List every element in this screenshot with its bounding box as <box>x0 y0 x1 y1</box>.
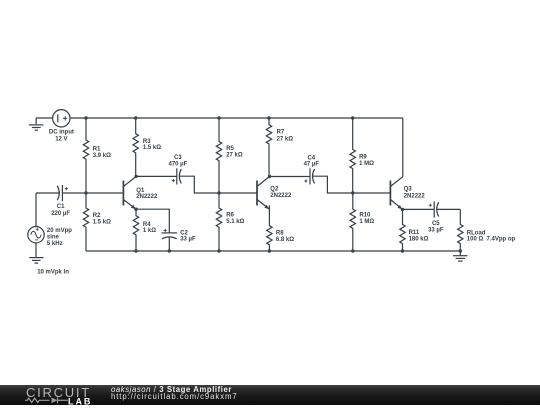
svg-text:27 kΩ: 27 kΩ <box>277 136 294 142</box>
transistor Q1 2N2222 <box>123 177 136 210</box>
wire Q3 emitter to C5 <box>403 208 435 210</box>
svg-text:1 MΩ: 1 MΩ <box>359 161 374 167</box>
svg-text:R10: R10 <box>359 213 371 219</box>
label C4 47uF <box>304 156 320 168</box>
resistor R10 <box>350 193 355 251</box>
svg-text:1.5 kΩ: 1.5 kΩ <box>93 219 111 225</box>
ground GND1 (top left) <box>29 118 43 130</box>
svg-text:6.8 kΩ: 6.8 kΩ <box>276 237 294 243</box>
junction dots emitter nodes <box>134 208 404 212</box>
svg-text:C1: C1 <box>57 204 65 210</box>
svg-text:R11: R11 <box>409 230 420 236</box>
resistor R2 <box>83 193 88 251</box>
svg-text:C5: C5 <box>432 221 440 227</box>
svg-text:R2: R2 <box>93 213 101 219</box>
junction dots collector nodes <box>134 175 271 179</box>
resistor R4 <box>133 209 138 251</box>
wire sine source to ground <box>35 243 37 257</box>
wire stage1 base line <box>62 192 123 194</box>
label R10 1 MOhm <box>359 213 374 226</box>
resistor R8 <box>267 205 272 251</box>
wire sine source drop <box>35 193 37 227</box>
voltage source V1 DC input <box>53 110 70 127</box>
resistor R5 <box>216 118 221 193</box>
svg-text:180 kΩ: 180 kΩ <box>409 237 429 243</box>
svg-text:470 µF: 470 µF <box>168 161 187 167</box>
wire C1 left lead <box>36 192 60 194</box>
wire top-left ground to V1 <box>36 117 53 119</box>
resistor R3 <box>133 118 138 176</box>
svg-text:R8: R8 <box>276 231 284 237</box>
footer bar <box>0 385 540 406</box>
capacitor C3 470uF <box>172 168 182 184</box>
capacitor C4 47uF <box>304 168 314 184</box>
label C3 470uF <box>168 155 187 168</box>
svg-text:R9: R9 <box>359 154 367 160</box>
label V1 "DC input 12 V" <box>49 130 74 143</box>
svg-text:RLoad: RLoad <box>467 230 486 236</box>
resistor R9 <box>350 118 355 193</box>
resistor R1 <box>83 118 88 193</box>
wire top rail <box>70 117 403 119</box>
svg-text:12 V: 12 V <box>55 136 67 142</box>
resistor R11 <box>400 209 405 251</box>
resistor R6 <box>216 193 221 251</box>
svg-text:27 kΩ: 27 kΩ <box>226 153 243 159</box>
wire Q1 emitter to C2 <box>136 209 169 232</box>
svg-text:2N2222: 2N2222 <box>136 194 158 200</box>
voltage source V2 sine 20mVpp <box>28 227 44 243</box>
transistor Q3 2N2222 <box>390 177 402 210</box>
svg-text:47 µF: 47 µF <box>304 162 320 168</box>
transistor Q2 2N2222 <box>257 177 270 210</box>
label R2 1.5 kOhm <box>93 213 111 225</box>
svg-text:C3: C3 <box>174 155 182 161</box>
svg-text:R6: R6 <box>226 213 234 219</box>
label C2 33uF <box>180 231 196 243</box>
label C1 220uF <box>51 204 70 217</box>
resistor R7 <box>266 118 271 177</box>
label R8 6.8 kOhm <box>276 231 294 244</box>
label RLoad 100 Ohm 7.4Vpp op <box>467 230 516 242</box>
svg-text:DC input: DC input <box>49 130 74 136</box>
label R4 1 kOhm <box>143 222 156 234</box>
junction dots top rail <box>84 116 354 119</box>
capacitor C2 33uF <box>162 229 178 251</box>
svg-text:R5: R5 <box>226 146 234 152</box>
wire Q1 collector to C3 <box>136 175 177 177</box>
wire RLoad to ground <box>459 251 461 255</box>
ground GND3 (output) <box>453 256 467 261</box>
wire C3 to Q2 base <box>179 176 257 193</box>
svg-text:1 MΩ: 1 MΩ <box>359 219 374 225</box>
label Q2 2N2222 <box>270 187 292 199</box>
svg-text:2N2222: 2N2222 <box>270 193 292 199</box>
footer title text <box>111 386 238 402</box>
svg-text:33 µF: 33 µF <box>180 236 196 242</box>
junction dots bottom rail <box>134 249 462 252</box>
svg-text:5.1 kΩ: 5.1 kΩ <box>226 219 244 225</box>
junction dots base lines <box>84 191 354 194</box>
label R5 27 kOhm <box>226 146 243 159</box>
wire Q2 collector to C4 <box>270 176 311 178</box>
ground GND2 (sine source) <box>29 258 43 264</box>
wire C5 to RLoad <box>437 208 461 210</box>
label R3 1.5 kOhm <box>143 139 161 151</box>
capacitor C1 220uF <box>57 185 68 201</box>
svg-text:LAB: LAB <box>68 396 92 406</box>
wire C4 to Q3 base <box>313 176 391 193</box>
svg-text:3.9 kΩ: 3.9 kΩ <box>93 153 111 159</box>
svg-text:1 kΩ: 1 kΩ <box>143 228 156 234</box>
svg-text:sine: sine <box>47 235 60 241</box>
svg-text:10 mVpk In: 10 mVpk In <box>37 270 69 276</box>
svg-text:100 Ω: 100 Ω <box>467 237 484 243</box>
label V2 20 mVpp sine 5 kHz <box>47 228 72 247</box>
svg-text:1.5 kΩ: 1.5 kΩ <box>143 145 161 151</box>
label Q3 2N2222 <box>404 187 426 200</box>
svg-text:Q3: Q3 <box>404 187 413 193</box>
label C5 33uF <box>428 221 444 233</box>
resistor RLoad <box>458 209 463 251</box>
svg-text:R1: R1 <box>93 146 101 152</box>
label R1 3.9 kOhm <box>93 146 111 159</box>
CircuitLab logo <box>0 385 110 406</box>
wire bottom rail <box>86 250 460 252</box>
label R11 180 kOhm <box>409 230 429 243</box>
svg-text:Q1: Q1 <box>136 188 145 194</box>
label 10 mVpk In <box>37 270 69 276</box>
svg-text:R3: R3 <box>143 139 151 145</box>
svg-text:R7: R7 <box>277 130 285 136</box>
wire top rail drop to Q3 collector <box>402 118 404 177</box>
svg-text:Q2: Q2 <box>270 187 279 193</box>
svg-text:20 mVpp: 20 mVpp <box>47 228 72 234</box>
svg-text:5 kHz: 5 kHz <box>47 241 63 247</box>
label R7 27 kOhm <box>277 130 294 143</box>
label R6 5.1 kOhm <box>226 213 244 226</box>
label Q1 2N2222 <box>136 188 158 200</box>
capacitor C5 33uF <box>429 201 439 217</box>
svg-text:220 µF: 220 µF <box>51 211 70 217</box>
label R9 1 MOhm <box>359 154 374 167</box>
svg-text:7.4Vpp op: 7.4Vpp op <box>487 237 516 243</box>
svg-text:33 µF: 33 µF <box>428 227 444 233</box>
svg-text:2N2222: 2N2222 <box>404 194 426 200</box>
